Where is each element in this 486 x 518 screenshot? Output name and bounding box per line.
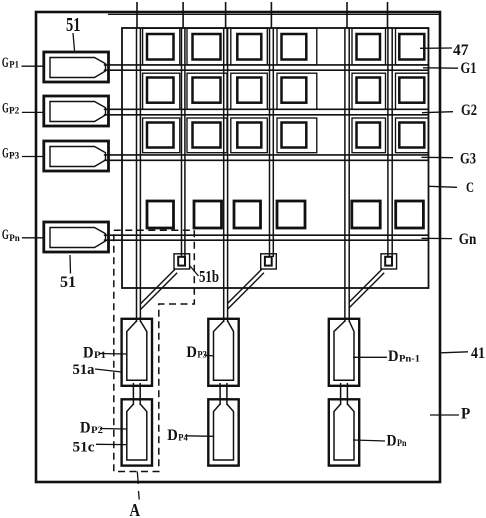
svg-text:51a: 51a <box>73 362 95 378</box>
pixel cell outline row1 col6 <box>396 28 429 65</box>
label DP2 with leader <box>100 428 127 431</box>
svg-text:Pn: Pn <box>9 234 20 244</box>
label GP2 with leader <box>22 111 45 113</box>
svg-text:P1: P1 <box>94 351 106 361</box>
gate line Gn (double line) <box>104 235 429 240</box>
label G3 with leader <box>422 156 454 158</box>
pixel cell outline row3 col1 <box>143 118 180 153</box>
pixel electrode row2 col4 <box>282 78 307 103</box>
label DP1 with leader <box>99 353 127 356</box>
pixel cell outline row2 col1 <box>143 73 180 109</box>
pixel cell outline row1 col4 <box>277 28 317 65</box>
label GP1 with leader <box>22 65 45 67</box>
pixel cell outline row2 col6 <box>396 73 429 109</box>
label G2 with leader <box>422 112 453 113</box>
label 41 with leader <box>441 352 468 353</box>
pixel electrode row1 col2 <box>193 34 221 60</box>
pixel electrode row2 col3 <box>237 78 261 103</box>
gate pad GP2 <box>44 96 109 126</box>
svg-text:D: D <box>167 425 178 444</box>
label DPn with leader <box>353 440 385 441</box>
data pad DP4 (lower bottle) <box>208 399 238 465</box>
pixel cell outline row2 col3 <box>231 73 267 109</box>
gate line G3 (double line) <box>104 155 429 160</box>
pixel electrode row1 col6 <box>399 34 424 60</box>
label Gn with leader <box>422 237 453 239</box>
svg-text:51: 51 <box>66 14 81 36</box>
svg-text:D: D <box>388 346 399 365</box>
pixel electrode row4 col5 <box>352 201 380 228</box>
pixel electrode row4 col2 <box>194 201 222 228</box>
connector wire between pads col3 <box>341 383 348 405</box>
pixel cell outline row1 col1 <box>143 28 180 65</box>
pixel cell outline row1 col2 <box>187 28 227 65</box>
region A dashed outline <box>114 230 195 471</box>
label 51c with leader <box>96 443 126 445</box>
svg-text:Pn: Pn <box>397 439 407 449</box>
data pad DP2 (lower bottle) <box>122 399 152 465</box>
svg-text:P: P <box>461 406 471 423</box>
pixel electrode row3 col2 <box>193 123 221 148</box>
gate pad GP3 <box>44 141 109 171</box>
svg-text:47: 47 <box>453 42 469 59</box>
pixel cell outline row1 col3 <box>231 28 267 65</box>
label GP3 with leader <box>22 156 45 158</box>
svg-text:G1: G1 <box>461 60 477 77</box>
contact pad 51b #3 <box>381 254 397 269</box>
svg-text:G: G <box>2 55 9 71</box>
svg-text:G: G <box>2 101 9 117</box>
svg-text:D: D <box>186 342 197 361</box>
pixel electrode row4 col4 <box>277 201 305 228</box>
pixel electrode row4 col3 <box>234 201 261 228</box>
svg-text:G3: G3 <box>460 151 476 168</box>
pixel cell outline row3 col5 <box>352 118 386 153</box>
label GPn with leader <box>22 237 45 239</box>
gate pad GPn <box>44 222 109 252</box>
svg-text:P2: P2 <box>91 426 103 436</box>
label DPn-1 with leader <box>353 356 387 358</box>
data pad DP3 (upper bottle) <box>208 319 238 386</box>
contact pad 51b #2 <box>261 254 277 269</box>
label G1 with leader <box>423 67 458 69</box>
pixel cell outline row3 col6 <box>396 118 429 153</box>
data line D4 (tick above border + double line) <box>270 2 274 257</box>
pixel electrode row3 col3 <box>237 123 261 148</box>
pixel cell outline row3 col2 <box>187 118 227 153</box>
svg-text:D: D <box>387 432 397 449</box>
data pad DP1 (upper bottle) <box>122 319 152 386</box>
pixel electrode row3 col4 <box>282 123 307 148</box>
pixel electrode row1 col4 <box>282 34 307 60</box>
label 51a with leader <box>95 369 122 372</box>
svg-text:C: C <box>466 180 474 196</box>
pixel electrode row2 col6 <box>399 78 424 103</box>
svg-text:D: D <box>80 417 91 436</box>
pixel electrode row4 col1 <box>147 201 174 228</box>
svg-text:P2: P2 <box>9 107 19 117</box>
pixel electrode row2 col1 <box>147 78 174 103</box>
contact pad 51b #1 <box>174 254 190 269</box>
pixel electrode row2 col2 <box>193 78 221 103</box>
label 47 with leader <box>420 47 452 49</box>
svg-text:51: 51 <box>60 272 76 291</box>
pixel electrode row3 col6 <box>399 123 424 148</box>
pixel electrode row3 col1 <box>147 123 174 148</box>
svg-text:P4: P4 <box>178 433 188 443</box>
svg-text:41: 41 <box>471 345 485 362</box>
label P with leader <box>430 414 459 416</box>
svg-text:P3: P3 <box>9 151 19 161</box>
svg-text:51b: 51b <box>199 267 219 286</box>
top border ghost line <box>108 13 439 15</box>
pixel electrode row2 col5 <box>357 78 381 103</box>
data pad DPn (lower bottle) <box>329 399 359 465</box>
connector wire between pads col2 <box>220 383 227 405</box>
pixel cell outline row2 col5 <box>352 73 386 109</box>
pixel electrode row3 col5 <box>357 123 381 148</box>
display area rect C <box>122 28 429 288</box>
pixel electrode row4 col6 <box>396 201 424 228</box>
fan-out link wire #1 (double diagonal) <box>140 269 177 309</box>
connector wire between pads col1 <box>133 383 140 405</box>
data line D5 (tick above border + double line) <box>345 2 349 322</box>
svg-text:P3: P3 <box>197 351 207 361</box>
gate line G2 (double line) <box>104 109 429 115</box>
pixel cell outline row2 col4 <box>277 73 317 109</box>
svg-text:G2: G2 <box>461 102 477 119</box>
svg-text:Gn: Gn <box>459 229 477 248</box>
svg-text:P1: P1 <box>9 61 19 71</box>
data line D3 (tick above border + double line) <box>224 2 228 322</box>
pixel cell outline row2 col2 <box>187 73 227 109</box>
pixel cell outline row1 col5 <box>352 28 386 65</box>
label DP3 with leader <box>204 355 214 356</box>
label 51b with leader <box>190 266 199 276</box>
data line D1 (tick above border + double line) <box>137 2 141 322</box>
pixel electrode row1 col1 <box>147 34 174 60</box>
substrate outer border (panel 41) <box>36 12 440 482</box>
svg-text:51c: 51c <box>73 439 95 455</box>
gate pad GP1 <box>44 52 109 82</box>
fan-out link wire #2 (double diagonal) <box>228 269 264 309</box>
fan-out link wire #3 (double diagonal) <box>349 269 384 308</box>
label 51 (top gate pad) with leader <box>73 33 75 51</box>
data pad DPn-1 (upper bottle) <box>329 319 359 386</box>
label DP4 with leader <box>185 435 214 438</box>
svg-text:D: D <box>83 343 94 362</box>
label 51 (below gate pad GPn) with leader <box>69 255 72 274</box>
pixel cell outline row3 col4 <box>277 118 317 153</box>
pixel electrode row1 col5 <box>357 34 381 60</box>
pixel cell outline row3 col3 <box>231 118 267 153</box>
label C with leader <box>429 186 457 187</box>
pixel electrode row1 col3 <box>237 34 261 60</box>
label A with leader <box>137 472 138 485</box>
gate line G1 (double line) <box>104 65 429 70</box>
data line D6 (tick above border + double line) <box>388 2 393 257</box>
svg-text:G: G <box>2 146 9 162</box>
svg-text:Pn-1: Pn-1 <box>399 354 420 364</box>
svg-text:A: A <box>130 500 141 518</box>
data line D2 (tick above border + double line) <box>182 2 185 257</box>
svg-text:G: G <box>2 227 9 243</box>
